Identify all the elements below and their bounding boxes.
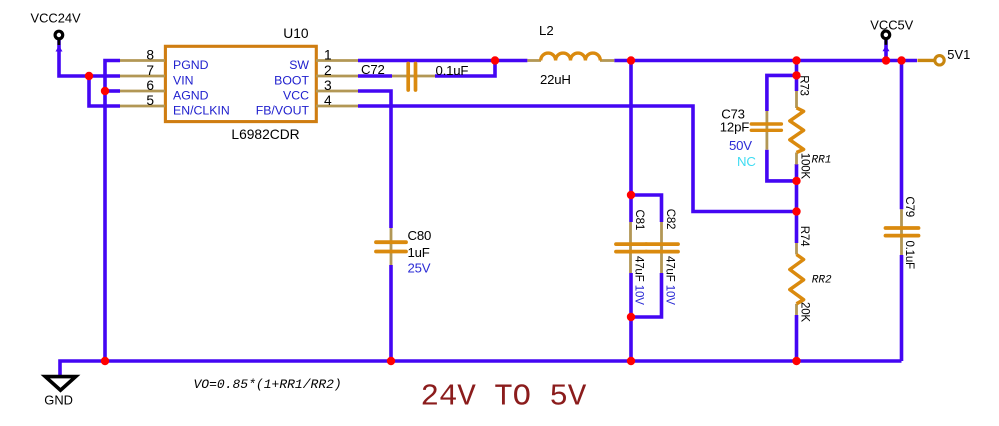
junction C81 ground node [627,357,635,365]
IC U10 L6982CDR body [165,26,316,142]
wire VCC5V stub [884,39,888,61]
junction R73/C73 top node [792,71,800,79]
svg-text:7: 7 [146,63,154,78]
pin 6 AGND [120,78,209,102]
junction VIN node [85,72,93,80]
power symbol VCC5V [870,17,913,51]
wire C81 bottom to ground rail [629,273,633,361]
wire C73 top branch [767,75,797,111]
wire C79 bottom to ground rail [900,255,904,361]
svg-text:C82: C82 [664,209,677,230]
svg-text:VIN: VIN [173,73,194,87]
svg-text:47uF: 47uF [633,256,646,282]
pin 2 BOOT [274,63,358,87]
resistor R73 [790,75,832,179]
junction C72/SW node [491,56,499,64]
junction R73/C73 bottom node [792,177,800,185]
junction L2 output node [627,56,635,64]
svg-text:8: 8 [146,48,154,63]
svg-text:NC: NC [737,154,756,169]
wire R74 bottom to ground rail [795,315,799,361]
svg-text:0.1uF: 0.1uF [903,241,916,270]
wire pin 4 FB/VOUT to feedback node [358,106,797,212]
svg-text:5V1: 5V1 [947,47,970,62]
wire R73 top to 5V rail [795,61,799,92]
svg-text:47uF: 47uF [664,256,677,282]
wire VIN junction down to pin 5 EN/CLKIN [89,76,120,106]
wire C80 bottom to ground rail [389,265,393,361]
ground symbol GND [44,377,75,408]
svg-text:EN/CLKIN: EN/CLKIN [173,103,230,117]
svg-text:C80: C80 [408,228,432,243]
svg-text:VCC5V: VCC5V [870,17,913,32]
svg-text:C72: C72 [361,62,385,77]
svg-text:10V: 10V [633,285,646,305]
svg-text:4: 4 [324,93,332,108]
resistor R74 [790,226,832,323]
wire pin 1 SW to inductor L2 [358,59,527,63]
svg-text:AGND: AGND [173,88,209,102]
svg-text:22uH: 22uH [540,72,571,87]
svg-text:C81: C81 [633,210,646,231]
svg-text:20K: 20K [799,302,812,322]
capacitor C72 [361,62,468,90]
junction C79 rail node [897,56,905,64]
port 5V1 [918,47,971,65]
svg-text:0.1uF: 0.1uF [436,63,469,78]
capacitor C82 [646,209,678,305]
svg-text:GND: GND [44,392,73,407]
wire C82 bottom jumper [631,273,662,317]
capacitor C81 [616,210,647,306]
pin 4 FB/VOUT [256,93,358,117]
pin 3 VCC [283,78,358,102]
wire pin 3 VCC down to C80 [358,91,391,228]
wire ground rail [60,361,902,378]
svg-text:1: 1 [324,48,332,63]
capacitor C73 [720,107,782,170]
svg-text:U10: U10 [283,26,309,41]
junction C81/C82 top node [627,191,635,199]
wire R73 bottom to feedback node [795,164,799,212]
pin 1 SW [289,48,358,72]
wire VCC24V to pin 7 VIN [59,38,120,76]
wire C72 right to SW net [435,61,495,77]
svg-text:C79: C79 [903,196,916,217]
svg-text:R74: R74 [798,226,811,247]
svg-text:RR1: RR1 [812,154,832,166]
svg-text:6: 6 [146,78,154,93]
svg-text:100K: 100K [799,153,812,180]
svg-text:50V: 50V [729,138,752,153]
svg-text:24V TO 5V: 24V TO 5V [421,380,587,415]
svg-text:L6982CDR: L6982CDR [231,127,299,142]
wire pin 6 AGND stub to ground vertical [105,89,120,93]
power symbol VCC24V [31,11,82,52]
svg-text:FB/VOUT: FB/VOUT [256,103,310,117]
junction AGND node [101,87,109,95]
svg-text:12pF: 12pF [720,120,749,135]
wire L2 output to 5V rail [614,59,917,63]
junction R74 ground node [792,357,800,365]
wire pin 8 PGND to ground rail (left vertical) [105,61,120,362]
svg-text:10V: 10V [664,285,677,305]
svg-text:PGND: PGND [173,58,209,72]
svg-text:1uF: 1uF [408,245,430,260]
junction ground rail left node [101,357,109,365]
svg-text:VCC24V: VCC24V [31,11,82,26]
svg-text:SW: SW [289,58,309,72]
inductor L2 [527,23,614,87]
junction feedback node [792,207,800,215]
svg-text:VCC: VCC [283,88,309,102]
svg-text:5: 5 [146,93,154,108]
svg-text:3: 3 [324,78,332,93]
svg-text:2: 2 [324,63,332,78]
pin 7 VIN [120,63,194,87]
svg-text:BOOT: BOOT [274,73,309,87]
svg-text:RR2: RR2 [812,275,832,287]
junction VCC5V rail node [882,56,890,64]
junction C81/C82 bottom node [627,313,635,321]
junction C80 ground node [387,357,395,365]
wire pin 2 BOOT to C72 left [358,74,392,78]
wire C82 top jumper [631,195,662,222]
svg-text:VO=0.85*(1+RR1/RR2): VO=0.85*(1+RR1/RR2) [194,377,342,392]
capacitor C79 [886,196,919,269]
wire R74 top [795,212,799,244]
pin 8 PGND [120,48,209,72]
wire SW/5V node vertical down to C81 [629,61,633,223]
wire C73 bottom branch [767,150,797,181]
svg-text:25V: 25V [408,261,431,276]
junction R73 rail node [792,56,800,64]
capacitor C80 [376,228,431,276]
wire C79 top branch [900,61,904,210]
pin 5 EN/CLKIN [120,93,230,117]
svg-text:L2: L2 [539,23,554,38]
